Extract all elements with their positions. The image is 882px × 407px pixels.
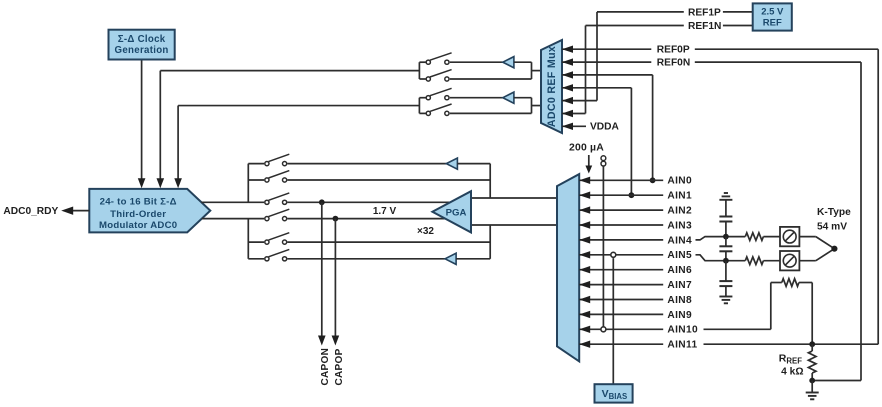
- switch S1B: [426, 77, 430, 81]
- switch S1A: [426, 60, 430, 64]
- wire row2 stub: [248, 179, 264, 181]
- svg-text:REF: REF: [763, 18, 782, 29]
- wire row3 to PGA: [287, 201, 450, 203]
- wire AIN9 input: [579, 313, 663, 315]
- wire from clock generation box down to modulator: [141, 60, 143, 182]
- wire row6 buffer to bracket: [456, 258, 490, 260]
- wire REF1P horizontal: [597, 11, 684, 13]
- wire CAPOP vertical: [334, 219, 336, 336]
- arrowhead pair1 into modulator: [157, 178, 165, 188]
- resistor on AIN4 line: [745, 233, 763, 241]
- capacitor C2: [719, 245, 732, 247]
- wire AIN6 input: [579, 269, 663, 271]
- resistor on AIN5 line: [745, 257, 763, 265]
- arrowhead REF1N into mux: [562, 110, 573, 117]
- node bracket right of REF switch pair 1: [531, 62, 533, 79]
- wire resistor to terminal top: [763, 236, 780, 238]
- svg-text:24- to 16 Bit Σ-Δ: 24- to 16 Bit Σ-Δ: [100, 196, 177, 207]
- wire AIN11 external: [704, 343, 879, 345]
- wire REF1N to 2.5V REF box: [723, 25, 753, 27]
- wire PGA input bottom from AIN mux: [471, 224, 558, 226]
- node bracket left of REF switch pair 1: [418, 62, 420, 79]
- arrowhead AIN8 into mux: [579, 296, 590, 303]
- svg-text:54 mV: 54 mV: [817, 222, 847, 233]
- wire horizontal REF pair 1 feed: [160, 70, 419, 72]
- wire PGA input top from AIN mux: [471, 197, 558, 199]
- node thermocouple junction: [831, 246, 837, 252]
- wire pair1 row A to buffer: [450, 61, 503, 63]
- capacitor C1: [719, 216, 732, 218]
- wire AIN5 node to cap C3: [725, 261, 727, 281]
- wire RREF to ground: [811, 381, 813, 393]
- wire pair2 row B to bracket: [450, 112, 532, 114]
- svg-text:AIN0: AIN0: [667, 176, 692, 187]
- svg-text:1.7 V: 1.7 V: [373, 206, 397, 217]
- current source symbol: [601, 156, 606, 161]
- wire vertical input4 down to AIN1: [630, 88, 632, 195]
- node bracket right of REF switch pair 2: [531, 98, 533, 114]
- arrowhead AIN10 into mux: [579, 326, 590, 333]
- arrowhead pair2 into modulator: [174, 178, 182, 188]
- wire terminal top to junction: [799, 236, 815, 238]
- svg-text:AIN2: AIN2: [667, 206, 692, 217]
- wire VBIAS vertical: [612, 258, 614, 384]
- node junction on AIN0: [650, 177, 656, 183]
- wire AIN8 input: [579, 299, 663, 301]
- switch row4: [265, 217, 269, 221]
- resistor RREF: [808, 351, 816, 373]
- resistor burnout: [782, 279, 799, 287]
- wire modulator output bottom: [202, 218, 264, 220]
- svg-text:Σ-Δ Clock: Σ-Δ Clock: [118, 34, 166, 45]
- box VBIAS: [595, 384, 633, 402]
- svg-text:Third-Order: Third-Order: [110, 209, 166, 220]
- wire REF mux input REF0N: [562, 61, 651, 63]
- node AIN4 filter junction: [723, 234, 729, 240]
- wire AIN10 up to burnout resistor: [770, 283, 772, 330]
- ADC0 REF Mux block: [541, 40, 562, 133]
- wire pair1 row A buffer to bracket: [514, 61, 532, 63]
- wire REF mux input 3 to AIN0: [562, 74, 653, 76]
- wire RREF top: [811, 344, 813, 351]
- wire AIN4 node to cap C2: [725, 237, 727, 247]
- svg-text:AIN9: AIN9: [667, 310, 692, 321]
- node CAPON tap: [319, 199, 325, 205]
- ground bottom of filter chain: [719, 296, 732, 298]
- wire C1 to AIN4 node: [725, 222, 727, 237]
- svg-text:Generation: Generation: [115, 45, 169, 56]
- svg-text:AIN1: AIN1: [667, 191, 692, 202]
- svg-text:2.5 V: 2.5 V: [761, 6, 784, 17]
- svg-text:AIN4: AIN4: [667, 235, 692, 246]
- arrowhead AIN9 into mux: [579, 311, 590, 318]
- wire row1 buffer to bracket: [457, 163, 490, 165]
- wire REF0N bottom to RREF: [812, 380, 861, 382]
- wire horizontal REF pair 2 feed: [178, 105, 419, 107]
- svg-text:200 µA: 200 µA: [569, 142, 604, 153]
- arrowhead ADC0_RDY: [61, 206, 73, 214]
- svg-text:PGA: PGA: [446, 207, 467, 218]
- wire pair1 row B to bracket: [450, 78, 532, 80]
- wire REF0P vertical right edge: [877, 49, 879, 344]
- node CAPOP tap: [333, 216, 339, 222]
- wire row5 to bracket: [287, 241, 490, 243]
- switch S2A: [426, 96, 430, 100]
- wire row4 to PGA: [287, 218, 445, 220]
- arrowhead AIN0 into mux: [579, 177, 590, 184]
- arrowhead AIN2 into mux: [579, 206, 590, 213]
- switch row1: [265, 162, 269, 166]
- wire REF0P to right edge: [695, 48, 878, 50]
- svg-text:4 kΩ: 4 kΩ: [781, 367, 803, 378]
- wire pair2 row A to buffer: [450, 97, 503, 99]
- arrowhead AIN6 into mux: [579, 266, 590, 273]
- node AIN5 filter junction: [723, 258, 729, 264]
- wire REF1P vertical: [596, 12, 598, 101]
- terminal block bottom: [780, 251, 799, 270]
- node junction AIN11 RREF: [809, 341, 815, 347]
- svg-text:REF0P: REF0P: [657, 45, 690, 56]
- wire pair2 row B stub: [419, 112, 425, 114]
- switch row5: [265, 240, 269, 244]
- buffer row1: [446, 158, 457, 169]
- svg-text:AIN8: AIN8: [667, 295, 692, 306]
- svg-text:ADC0_RDY: ADC0_RDY: [3, 206, 58, 217]
- ground RREF: [806, 392, 819, 394]
- buffer row6: [445, 253, 456, 264]
- svg-text:REF1N: REF1N: [688, 21, 721, 32]
- node bracket rows 1-3 left: [247, 164, 249, 203]
- svg-text:AIN11: AIN11: [667, 340, 697, 351]
- arrowhead AIN7 into mux: [579, 281, 590, 288]
- svg-text:CAPOP: CAPOP: [334, 348, 345, 385]
- wire REF0N to right side: [695, 61, 861, 63]
- svg-text:AIN10: AIN10: [667, 325, 698, 336]
- arrowhead CAPON: [318, 336, 326, 346]
- wire pair1 row A stub: [419, 61, 425, 63]
- svg-text:AIN3: AIN3: [667, 220, 692, 231]
- wire VDDA into REF mux: [562, 125, 586, 127]
- ground top of filter chain: [719, 199, 732, 201]
- wire pair2 row A stub: [419, 97, 425, 99]
- wire C3 to ground: [725, 286, 727, 296]
- wire AIN1 input: [579, 194, 663, 196]
- node open circle on AIN10: [601, 327, 606, 332]
- wire row1 stub: [248, 163, 264, 165]
- node bracket left of REF switch pair 2: [418, 98, 420, 114]
- wire REF mux input REF0P: [562, 48, 651, 50]
- arrowhead input4 into mux: [562, 84, 573, 91]
- arrowhead clock into modulator: [138, 178, 146, 188]
- arrowhead CAPOP: [332, 336, 340, 346]
- wire pair2 output to REF mux: [532, 105, 543, 107]
- wire vertical from REF switch pair 2 to modulator: [177, 106, 179, 181]
- switch row3: [265, 200, 269, 204]
- wire AIN10 input: [579, 328, 663, 330]
- wire AIN4 input: [579, 239, 663, 241]
- node RREF bottom junction: [809, 378, 815, 384]
- wire burnout top left: [771, 282, 782, 284]
- svg-text:K-Type: K-Type: [817, 207, 851, 218]
- wire pair2 row A buffer to bracket: [514, 97, 532, 99]
- wire pair1 row B stub: [419, 78, 425, 80]
- wire resistor to terminal bottom: [763, 260, 780, 262]
- arrowhead AIN3 into mux: [579, 221, 590, 228]
- svg-text:REF1P: REF1P: [688, 7, 721, 18]
- wire terminal bottom to junction: [799, 260, 815, 262]
- node bracket right top rows1-2 to PGA input: [489, 164, 491, 198]
- buffer on REF pair 1: [503, 57, 514, 68]
- wire modulator output top: [201, 201, 264, 203]
- svg-text:ADC0 REF Mux: ADC0 REF Mux: [546, 46, 558, 127]
- svg-text:REF0N: REF0N: [657, 58, 690, 69]
- node junction on AIN1: [629, 192, 635, 198]
- wire AIN2 input: [579, 209, 663, 211]
- svg-text:VDDA: VDDA: [590, 122, 620, 133]
- wire REF1N horizontal: [586, 25, 684, 27]
- arrowhead AIN11 into mux: [579, 341, 590, 348]
- wire row1 to buffer: [287, 163, 446, 165]
- wire REF1N vertical: [585, 26, 587, 114]
- arrowhead VDDA into mux: [562, 123, 573, 130]
- wire burnout top right: [799, 282, 812, 284]
- switch row6: [265, 257, 269, 261]
- wire pair1 output to REF mux: [532, 70, 543, 72]
- wire AIN10 external: [704, 328, 771, 330]
- op-amp PGA: [432, 191, 471, 232]
- arrowhead AIN1 into mux: [579, 192, 590, 199]
- wire row6 stub: [248, 258, 264, 260]
- box 2.5V REF: [753, 3, 792, 30]
- capacitor C3: [719, 280, 732, 282]
- node bracket rows 4-6 left: [247, 219, 249, 259]
- wire RREF bottom: [811, 373, 813, 381]
- wire AIN11 input: [579, 343, 663, 345]
- wire AIN5 external jog: [696, 255, 746, 261]
- arrowhead REF0P into mux: [562, 46, 573, 53]
- svg-text:AIN5: AIN5: [667, 250, 692, 261]
- AIN mux block: [557, 174, 579, 361]
- arrowhead AIN5 into mux: [579, 251, 590, 258]
- wire ground to cap C1: [725, 200, 727, 217]
- wire row2 to bracket: [287, 179, 490, 181]
- node open circle on AIN5: [611, 252, 616, 257]
- wire AIN0 input: [579, 179, 663, 181]
- wire ADC0_RDY output: [66, 210, 89, 212]
- buffer on REF pair 2: [503, 92, 514, 103]
- switch row2: [265, 178, 269, 182]
- wire REF0N vertical right side: [860, 62, 862, 380]
- wire C2 to AIN5 node: [725, 251, 727, 260]
- wire REF mux input 4 to AIN1: [562, 87, 631, 89]
- arrowhead REF1P into mux: [562, 97, 573, 104]
- svg-text:CAPON: CAPON: [320, 348, 331, 386]
- arrowhead AIN4 into mux: [579, 236, 590, 243]
- svg-text:AIN7: AIN7: [667, 280, 692, 291]
- svg-text:AIN6: AIN6: [667, 265, 692, 276]
- wire vertical input3 down to AIN0: [652, 75, 654, 180]
- wire AIN4 external jog: [696, 237, 746, 240]
- switch S2B: [426, 111, 430, 115]
- terminal block top: [780, 227, 799, 246]
- wire vertical from REF switch pair 1 to modulator: [159, 71, 161, 181]
- arrow current direction down: [588, 155, 590, 167]
- wire REF mux input REF1N: [562, 113, 586, 115]
- node bracket right bottom rows5-6 to PGA input: [489, 225, 491, 259]
- wire row5 stub: [248, 241, 264, 243]
- modulator ADC0 block: [89, 189, 210, 233]
- svg-text:Modulator ADC0: Modulator ADC0: [99, 220, 177, 231]
- box sigma-delta clock generation: [109, 30, 175, 60]
- wire AIN3 input: [579, 224, 663, 226]
- wire row6 to buffer: [287, 258, 445, 260]
- wire REF mux input REF1P: [562, 100, 597, 102]
- wire AIN5 input: [579, 254, 663, 256]
- wire REF1P to 2.5V REF box: [723, 11, 753, 13]
- wire current source down to AIN10: [602, 167, 604, 327]
- wire burnout down to AIN11: [811, 283, 813, 345]
- arrowhead input3 into mux: [562, 71, 573, 78]
- wire AIN7 input: [579, 284, 663, 286]
- wire CAPON vertical: [321, 202, 323, 336]
- arrowhead REF0N into mux: [562, 58, 573, 65]
- svg-text:×32: ×32: [417, 226, 434, 237]
